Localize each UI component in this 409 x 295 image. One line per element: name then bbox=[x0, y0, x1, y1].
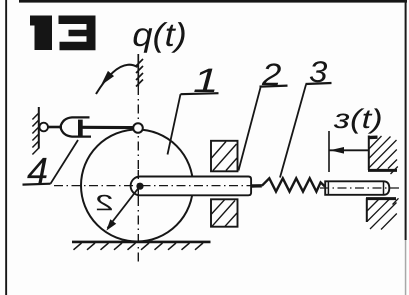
label 4 bbox=[27, 158, 47, 184]
label s(t) bbox=[334, 108, 381, 133]
guide upper hatching bbox=[212, 142, 238, 171]
label 3 bbox=[310, 61, 327, 82]
horizontal centerline bbox=[54, 185, 256, 187]
label q(t) bbox=[134, 22, 185, 53]
damper link from pivot bbox=[48, 126, 62, 129]
guide lower hatching bbox=[212, 200, 238, 227]
piston rod 1 (cylinder from wheel center) bbox=[131, 177, 252, 196]
pin at wheel top bbox=[133, 123, 143, 133]
wheel center dot bbox=[136, 183, 143, 190]
radius label (mirrored 2) bbox=[97, 195, 112, 210]
frame right border bbox=[405, 0, 407, 240]
dimension arrowhead bbox=[330, 147, 344, 154]
figure number 13 bbox=[30, 16, 96, 51]
radius arrowhead bbox=[106, 219, 116, 230]
label 1 leader bbox=[168, 94, 181, 154]
label 1 underline bbox=[181, 93, 219, 94]
right wall lower hatching bbox=[367, 198, 399, 229]
output rod centerline bbox=[320, 187, 400, 189]
hatch ticks on axis bbox=[136, 59, 143, 87]
left wall hatching bbox=[32, 113, 38, 155]
wheel (disc) 1 bbox=[81, 130, 193, 242]
output rod inner cap bbox=[327, 181, 329, 194]
right wall lower part bbox=[366, 198, 368, 222]
label 2 underline bbox=[260, 86, 288, 87]
label 2 leader bbox=[239, 88, 261, 171]
label 3 leader bbox=[280, 85, 306, 178]
guide wall lower block bbox=[211, 199, 238, 226]
dimension s(t) extension line bbox=[328, 131, 330, 172]
damper cylinder (fork) 4 bbox=[60, 117, 91, 136]
axis centerline (vertical dash-dot) bbox=[137, 54, 139, 86]
frame left border bbox=[5, 0, 7, 295]
label 4 underline bbox=[23, 183, 51, 186]
radius arrow line bbox=[108, 188, 139, 228]
frame top border bbox=[19, 0, 407, 3]
dimension line bbox=[329, 149, 368, 151]
label 2 bbox=[262, 63, 281, 85]
spring 3 bbox=[251, 184, 262, 188]
label 4 leader bbox=[51, 140, 79, 184]
ground hatching bbox=[74, 243, 204, 250]
right wall upper part bbox=[368, 136, 370, 171]
output rod (right) bbox=[325, 181, 389, 195]
damper piston rod bbox=[83, 126, 135, 129]
damper piston plate bbox=[78, 120, 83, 137]
pivot at wall bbox=[39, 123, 48, 132]
label 3 underline bbox=[306, 83, 332, 84]
vertical centerline over rod bbox=[137, 170, 139, 200]
arrowhead of curved arrow bbox=[101, 71, 114, 86]
ground line bbox=[72, 241, 211, 244]
right wall upper hatching bbox=[369, 136, 398, 174]
left wall bbox=[38, 107, 40, 149]
label 1 bbox=[194, 69, 214, 92]
guide wall upper block bbox=[211, 141, 238, 172]
curved arrow for q(t) bbox=[96, 65, 138, 94]
